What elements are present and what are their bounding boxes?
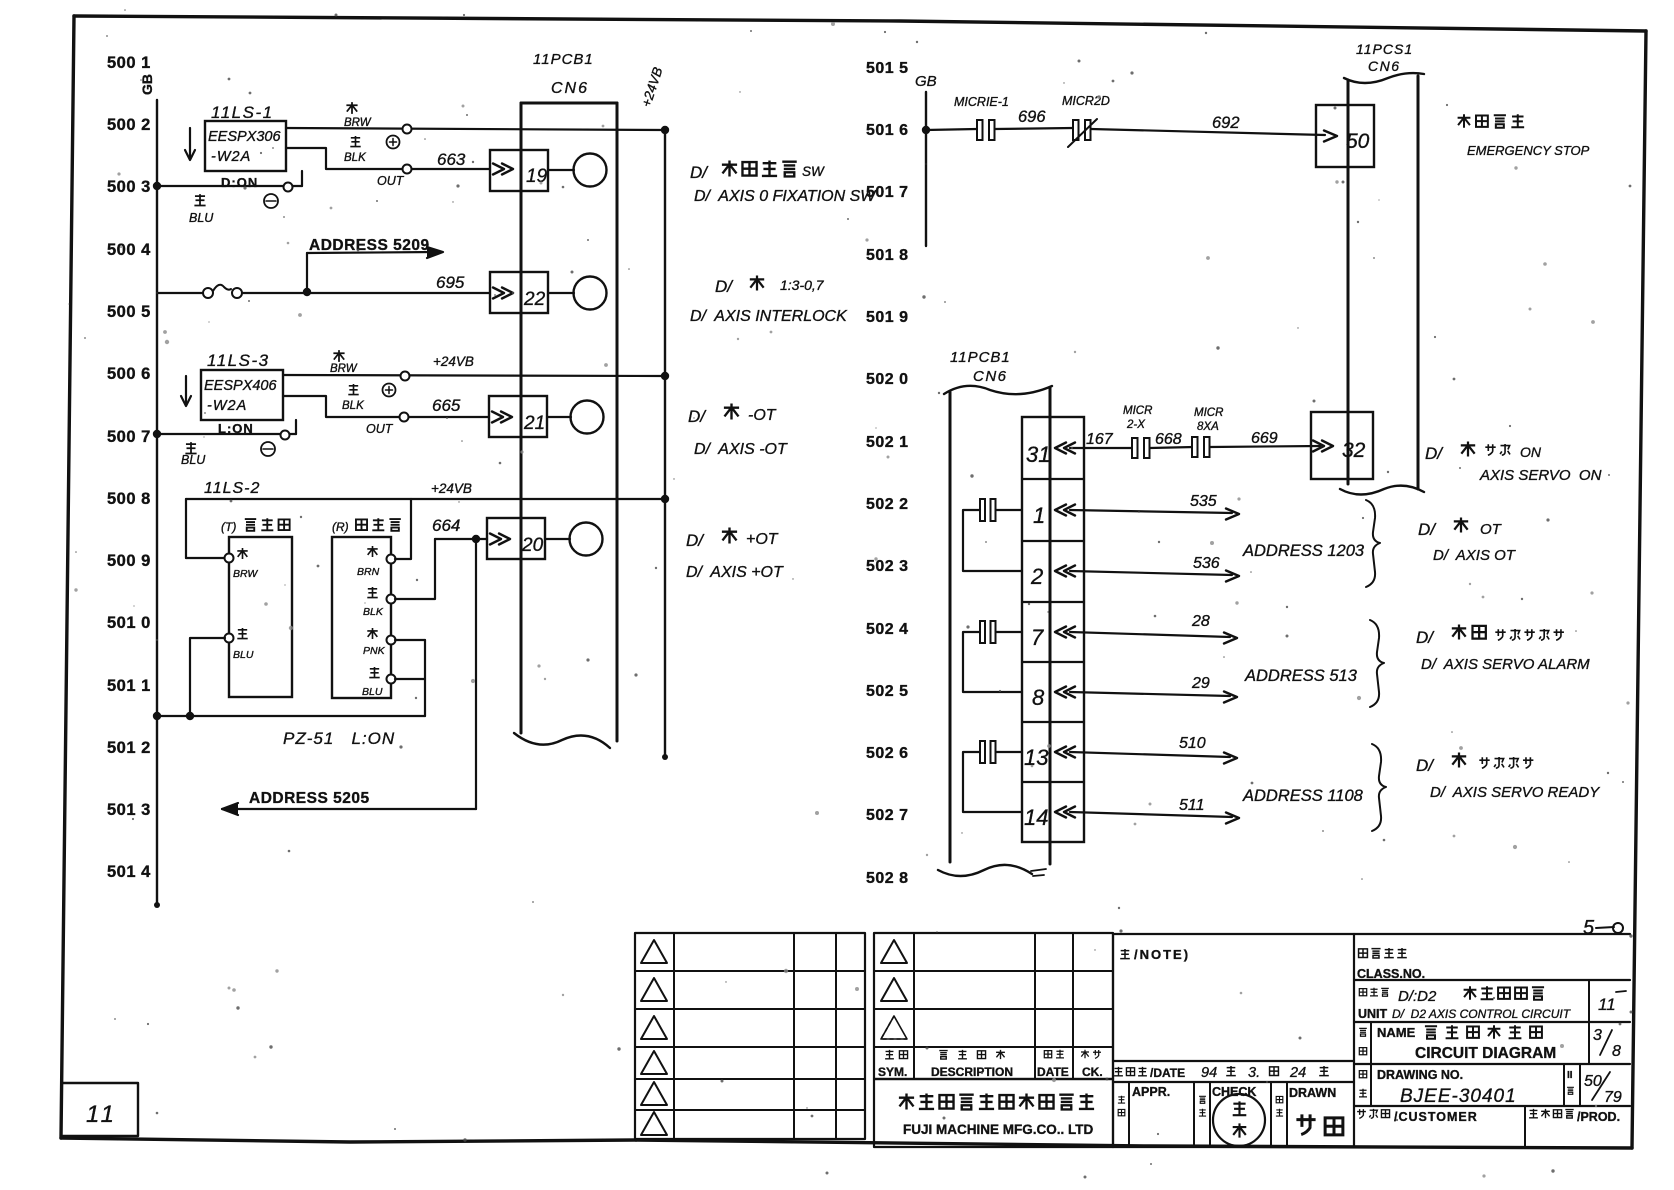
svg-text:D/: D/ (715, 277, 734, 296)
svg-text:BRW: BRW (330, 363, 358, 375)
title block revision table right (874, 933, 1113, 1079)
svg-text:510: 510 (1179, 735, 1206, 752)
svg-text:665: 665 (432, 396, 461, 415)
BLU colour label 11LS-3 (185, 442, 196, 453)
wire 696 (995, 128, 1073, 129)
BLU colour label 11LS-1 (194, 194, 205, 205)
svg-text:668: 668 (1155, 431, 1182, 448)
svg-text:BRN: BRN (357, 566, 380, 578)
svg-text:BRW: BRW (344, 117, 372, 129)
svg-text:502 5: 502 5 (866, 683, 909, 700)
svg-text:DATE: DATE (1037, 1065, 1069, 1079)
wire pin21 to lamp (547, 416, 571, 418)
capacitor link pins 1-2 (980, 499, 985, 521)
svg-text:MICR: MICR (1123, 405, 1152, 417)
svg-text:500 7: 500 7 (107, 428, 151, 446)
revision triangle (641, 1051, 667, 1074)
BRW colour label 11LS-3 (333, 350, 344, 362)
svg-text:MICR2D: MICR2D (1062, 94, 1110, 108)
drawn by Esaka (1296, 1114, 1315, 1134)
pin 14 arrow (1055, 807, 1066, 818)
border frame left edge (61, 16, 74, 1138)
check col label (1199, 1096, 1206, 1103)
svg-text:AXIS SERVO ON: AXIS SERVO ON (1479, 467, 1602, 484)
capacitor link pins 7-8 (980, 621, 985, 643)
svg-text:24: 24 (1289, 1065, 1306, 1081)
wire 510 (1070, 752, 1230, 757)
drawn col label (1276, 1096, 1283, 1102)
svg-text:31: 31 (1026, 442, 1050, 467)
svg-text:664: 664 (432, 516, 460, 535)
svg-text:14: 14 (1024, 805, 1048, 830)
transmitter terminal BRW (225, 554, 234, 563)
svg-text:94: 94 (1201, 1065, 1217, 1081)
pcb input box pin 22 (490, 272, 548, 313)
svg-text:2: 2 (1030, 564, 1043, 589)
svg-text:ADDRESS 5205: ADDRESS 5205 (249, 790, 370, 807)
connector middle torn bottom (938, 865, 1032, 876)
svg-text:11: 11 (86, 1101, 117, 1128)
wire 5005 from GB bus (157, 292, 203, 294)
wire 5003 blue lead from 11LS-1 (301, 171, 303, 186)
svg-text:SW: SW (802, 164, 825, 179)
pin 19 arrow (502, 164, 513, 175)
svg-text:511: 511 (1179, 797, 1205, 814)
svg-text:20: 20 (521, 535, 544, 556)
svg-text:D/: D/ (688, 407, 707, 426)
svg-text:8: 8 (1612, 1043, 1621, 1060)
11LS-1 actuator arrow (189, 128, 191, 158)
svg-text:BLU: BLU (362, 686, 383, 698)
wire BRN to +24VB rail (395, 499, 411, 559)
header CK cell (1081, 1050, 1089, 1058)
connector pin box 50 (1316, 105, 1374, 167)
wire transmitter BLU to 5012 (190, 638, 225, 716)
relay contact MICR 8XA (1192, 437, 1198, 457)
svg-text:11PCS1: 11PCS1 (1356, 41, 1413, 57)
svg-text:32: 32 (1342, 439, 1366, 462)
svg-text:/CUSTOMER: /CUSTOMER (1394, 1110, 1478, 1124)
limit switch 11LS-1 body (205, 121, 286, 171)
revision triangle (881, 1016, 907, 1039)
wire drop to transmitter (185, 499, 187, 558)
receiver terminal BLK (387, 595, 396, 604)
ADDRESS 5205 arrow (222, 808, 476, 810)
transmitter (T) body (229, 537, 292, 697)
wire PNK-BLU down to 5012 (424, 640, 426, 716)
limit switch 11LS-3 body (201, 370, 283, 420)
svg-text:EMERGENCY STOP: EMERGENCY STOP (1467, 143, 1590, 158)
title block bottom edge (636, 1140, 1632, 1148)
revision triangle (881, 940, 907, 963)
svg-text:ON: ON (1520, 444, 1542, 460)
plus terminal symbol 11LS-3 (383, 384, 396, 397)
svg-text:535: 535 (1190, 493, 1217, 510)
wire 5006 brown from 11LS-3 to +24VB bus (283, 375, 665, 376)
receiver terminal BLU (387, 675, 396, 684)
svg-text:501 0: 501 0 (107, 614, 151, 632)
svg-text:29: 29 (1191, 675, 1210, 692)
wire pin19 to lamp (548, 169, 574, 171)
company name japanese (899, 1094, 914, 1110)
brace alarm group (1370, 620, 1384, 707)
receiver (R) body (332, 537, 391, 698)
svg-text:D/:D2: D/:D2 (1398, 988, 1437, 1005)
junction GB/5016 (922, 126, 930, 134)
svg-text:501 9: 501 9 (866, 309, 909, 326)
relay contact MICR2D (NC) (1073, 120, 1079, 140)
pcb input box pin 21 (489, 396, 547, 437)
connector right torn bottom (1340, 486, 1424, 495)
wire 535 (1070, 510, 1232, 513)
11LS-3 actuator arrow (185, 376, 187, 404)
svg-text:DESCRIPTION: DESCRIPTION (931, 1065, 1013, 1079)
wire 536 (1070, 571, 1232, 575)
revision triangle (881, 978, 907, 1001)
unit label japanese (1359, 989, 1366, 996)
svg-text:D/ AXIS +OT: D/ AXIS +OT (686, 564, 784, 581)
svg-text:D/: D/ (1416, 756, 1435, 775)
svg-text:D/: D/ (1416, 628, 1435, 647)
svg-text:DRAWN: DRAWN (1289, 1086, 1336, 1100)
svg-text:OUT: OUT (377, 174, 405, 188)
pcb input box pin 19 (490, 150, 548, 191)
connector 11PCB1 CN6 left body (521, 102, 617, 105)
svg-text:501 2: 501 2 (107, 739, 151, 757)
svg-text:502 0: 502 0 (866, 371, 909, 388)
svg-text:BLU: BLU (233, 649, 254, 661)
approval col label (1118, 1096, 1125, 1103)
svg-text:1:3-0,7: 1:3-0,7 (780, 277, 825, 293)
svg-text:D/ AXIS SERVO ALARM: D/ AXIS SERVO ALARM (1421, 656, 1590, 673)
svg-text:500 5: 500 5 (107, 303, 151, 321)
svg-text:EESPX406: EESPX406 (204, 378, 277, 394)
svg-text:/NOTE): /NOTE) (1134, 947, 1190, 962)
svg-text:2-X: 2-X (1126, 419, 1146, 431)
svg-text:CK.: CK. (1082, 1065, 1103, 1079)
lamp indicator pin 22 (574, 277, 607, 310)
svg-text:D/: D/ (690, 163, 709, 182)
svg-text:CN6: CN6 (1368, 58, 1401, 74)
wire 669 to pin 32 (1210, 446, 1320, 447)
R-BRN colour label (367, 546, 377, 557)
terminal circle on 5007 wire (281, 431, 290, 440)
checker stamp Yamamoto (1213, 1094, 1265, 1146)
revision triangle (641, 978, 667, 1001)
relay contact MICR 2-X (1132, 438, 1138, 458)
revision triangle (641, 1082, 667, 1105)
connector 11PCB1 CN6 middle body (944, 386, 1052, 394)
connector pin box 32 (1311, 412, 1373, 479)
svg-text:11LS-2: 11LS-2 (204, 480, 260, 497)
relay contact MICRIE-1 (977, 120, 983, 140)
R-BLK colour label (367, 587, 377, 598)
name col label (1359, 1028, 1367, 1036)
BRW colour label (346, 102, 357, 114)
svg-text:500 1: 500 1 (107, 54, 151, 72)
pin 8 arrow (1055, 687, 1066, 698)
svg-text:663: 663 (437, 150, 466, 169)
svg-text:500 3: 500 3 (107, 178, 151, 196)
junction 5209/5005 (303, 288, 311, 296)
GB bus end dot (154, 902, 160, 908)
drawing col label (1359, 1071, 1366, 1078)
terminal circle on 5003 wire (284, 183, 293, 192)
pin 31 arrow (1055, 443, 1066, 454)
svg-text:501 7: 501 7 (866, 184, 909, 201)
ADDRESS 5209 arrow (307, 252, 436, 253)
wire 5007 blue lead from 11LS-3 (295, 420, 297, 434)
+24VB bus vertical wire (664, 130, 666, 757)
wire pin22 to lamp (548, 292, 574, 294)
pin 32 entry arrow (1322, 441, 1333, 452)
name value electric circuit diagram (japanese) (1425, 1026, 1437, 1038)
svg-text:SYM.: SYM. (878, 1065, 907, 1079)
wire 5008 +24VB to bus (186, 498, 665, 500)
junction +24VB/5002 (661, 126, 669, 134)
svg-text:EESPX306: EESPX306 (208, 129, 281, 145)
svg-text:13: 13 (1024, 745, 1049, 770)
wire pin20 to lamp (545, 538, 570, 540)
svg-text:500 2: 500 2 (107, 116, 151, 134)
svg-text:167: 167 (1086, 431, 1114, 448)
svg-text:BLK: BLK (344, 152, 367, 164)
junction +24VB/5006 (661, 372, 669, 380)
svg-text:-W2A: -W2A (211, 149, 251, 165)
svg-text:501 3: 501 3 (107, 801, 151, 819)
svg-text:502 4: 502 4 (866, 621, 909, 638)
name cell (1354, 1063, 1630, 1065)
svg-text:D/: D/ (1425, 444, 1444, 463)
svg-text:695: 695 (436, 273, 465, 292)
+24VB bus end dot (662, 754, 668, 760)
pin 1 arrow (1055, 505, 1066, 516)
prod label (1529, 1109, 1538, 1118)
wire 5012 from GB bus (157, 715, 425, 717)
svg-text:11LS-3: 11LS-3 (207, 351, 270, 370)
svg-text:OT: OT (1480, 521, 1503, 538)
svg-text:D/ AXIS INTERLOCK: D/ AXIS INTERLOCK (690, 308, 848, 325)
svg-text:+24VB: +24VB (433, 354, 474, 369)
svg-text:ADDRESS 1108: ADDRESS 1108 (1242, 787, 1364, 805)
svg-text:D/ D2 AXIS CONTROL CIRCUIT: D/ D2 AXIS CONTROL CIRCUIT (1392, 1007, 1572, 1021)
class cell (1354, 934, 1630, 1147)
svg-text:501 4: 501 4 (107, 863, 151, 881)
class label japanese (1359, 949, 1368, 958)
T-BLU colour label (237, 628, 247, 639)
svg-text:11PCB1: 11PCB1 (950, 349, 1011, 366)
svg-text:11LS-1: 11LS-1 (211, 103, 274, 122)
svg-text:BJEE-30401: BJEE-30401 (1400, 1086, 1517, 1107)
svg-text:669: 669 (1251, 430, 1278, 447)
lamp indicator pin 20 (570, 523, 603, 556)
sheet number box (63, 1083, 138, 1136)
minus terminal symbol 11LS-3 (261, 442, 275, 456)
svg-text:8XA: 8XA (1197, 421, 1219, 433)
wire 5002 brown BRW from 11LS-1 to +24VB bus (286, 128, 665, 130)
svg-text:-W2A: -W2A (207, 398, 247, 414)
header SYM cell (885, 1050, 894, 1059)
svg-text:21: 21 (523, 413, 545, 434)
pin 2 arrow (1055, 566, 1066, 577)
brace OT group (1366, 500, 1380, 587)
svg-text:501 8: 501 8 (866, 247, 909, 264)
svg-text:500 4: 500 4 (107, 241, 151, 259)
svg-text:CIRCUIT DIAGRAM: CIRCUIT DIAGRAM (1415, 1045, 1556, 1062)
approval row frame (1113, 1082, 1354, 1147)
svg-text:500 8: 500 8 (107, 490, 151, 508)
svg-text:BLK: BLK (363, 606, 384, 618)
BLK colour label (350, 136, 360, 147)
svg-text:PNK: PNK (363, 645, 386, 657)
svg-text:ADDRESS 513: ADDRESS 513 (1244, 667, 1358, 685)
svg-text:UNIT: UNIT (1358, 1007, 1388, 1021)
svg-text:5: 5 (1583, 917, 1595, 939)
pin terminal stack outline (1022, 417, 1084, 842)
svg-text:3.: 3. (1248, 1065, 1260, 1081)
pin 13 arrow (1055, 747, 1066, 758)
wire black BLK out of 11LS-1 (286, 148, 490, 169)
pcb input box pin 20 (487, 518, 545, 559)
drawing no cell (1354, 1105, 1630, 1107)
wire 664 to pin 20 (435, 538, 487, 540)
wire black BLK out of 11LS-3 (283, 396, 489, 417)
svg-text:502 8: 502 8 (866, 870, 909, 887)
wire BLU receiver (395, 678, 425, 680)
svg-text:502 7: 502 7 (866, 807, 909, 824)
svg-text:3: 3 (1593, 1027, 1602, 1044)
junction 664/address tap (472, 535, 480, 543)
pin 50 entry arrow (1324, 131, 1337, 142)
receiver terminal BRN (387, 555, 396, 564)
title block revision table left (635, 933, 865, 1139)
svg-text:APPR.: APPR. (1132, 1085, 1170, 1099)
revision triangle (641, 1112, 667, 1135)
svg-text:19: 19 (526, 166, 548, 187)
wire 167 (1070, 447, 1134, 449)
svg-text:MICRIE-1: MICRIE-1 (954, 95, 1009, 109)
svg-text:/DATE: /DATE (1150, 1066, 1185, 1080)
unit cell (1354, 1021, 1630, 1023)
wire PNK (395, 639, 425, 641)
svg-text:7: 7 (1031, 625, 1044, 650)
receiver terminal PNK (387, 636, 396, 645)
svg-text:/PROD.: /PROD. (1577, 1110, 1620, 1124)
terminal circle on BRW wire (403, 125, 412, 134)
svg-text:502 3: 502 3 (866, 558, 909, 575)
svg-text:D/ AXIS -OT: D/ AXIS -OT (694, 441, 788, 458)
svg-text:502 2: 502 2 (866, 496, 909, 513)
svg-text:11: 11 (1598, 995, 1616, 1014)
transmitter terminal BLU (225, 634, 234, 643)
svg-text:II: II (1567, 1070, 1573, 1081)
svg-text:PZ-51 L:ON: PZ-51 L:ON (283, 729, 395, 748)
BLK colour label 11LS-3 (348, 384, 358, 395)
terminal circle on BLK wire (403, 165, 412, 174)
svg-text:GB: GB (139, 74, 155, 95)
svg-text:501 6: 501 6 (866, 122, 909, 139)
switch contact on 5005 (203, 288, 213, 298)
svg-text:8: 8 (1032, 685, 1045, 710)
svg-text:11PCB1: 11PCB1 (533, 51, 594, 68)
svg-text:BLK: BLK (342, 400, 365, 412)
terminal circle on 665 wire (400, 413, 409, 422)
plus terminal symbol (387, 136, 400, 149)
svg-text:D/ AXIS 0 FIXATION SW: D/ AXIS 0 FIXATION SW (694, 188, 877, 205)
svg-text:-OT: -OT (748, 407, 777, 424)
svg-text:CN6: CN6 (551, 80, 589, 97)
svg-text:BLU: BLU (181, 453, 206, 467)
R-BLU colour label (369, 667, 379, 678)
lamp indicator pin 21 (571, 401, 604, 434)
connector 11PCS1 CN6 body (1344, 73, 1424, 83)
border frame top edge (74, 16, 1646, 31)
wire 511 (1070, 812, 1232, 817)
svg-text:FUJI MACHINE MFG.CO.. LTD: FUJI MACHINE MFG.CO.. LTD (903, 1122, 1093, 1137)
junction GB/5007 (153, 430, 161, 438)
wire 668 (1150, 447, 1194, 448)
pin 21 arrow (501, 412, 512, 423)
pin 7 arrow (1055, 627, 1066, 638)
svg-text:D/ AXIS SERVO READY: D/ AXIS SERVO READY (1430, 784, 1600, 801)
junction 5012/T-BLU (186, 712, 194, 720)
border frame right edge (1632, 31, 1646, 1148)
svg-text:D/: D/ (1418, 520, 1437, 539)
wire 695 to pin 22 (242, 292, 490, 294)
ADDRESS 5205 tap wire (475, 539, 477, 809)
svg-text:+OT: +OT (746, 531, 779, 548)
svg-text:BRW: BRW (233, 568, 258, 580)
svg-text:50: 50 (1346, 130, 1370, 153)
ADDRESS 5209 tap wire (306, 253, 308, 292)
capacitor link pins 13-14 (980, 741, 985, 763)
wire 5016 from GB bus (926, 129, 977, 130)
svg-text:MICR: MICR (1194, 407, 1223, 419)
lamp indicator pin 19 (574, 154, 607, 187)
svg-text:(R): (R) (332, 520, 349, 534)
pin 20 arrow (499, 534, 510, 545)
svg-text:D/: D/ (686, 531, 705, 550)
svg-text:CN6: CN6 (973, 368, 1008, 385)
customer cell (1524, 1106, 1526, 1147)
R-PNK colour label (367, 628, 377, 639)
svg-text:500 9: 500 9 (107, 552, 151, 570)
svg-text:GB: GB (915, 73, 937, 90)
svg-text:536: 536 (1193, 555, 1220, 572)
svg-text:696: 696 (1018, 108, 1046, 126)
header DATE cell (1044, 1051, 1051, 1058)
svg-text:ADDRESS 1203: ADDRESS 1203 (1242, 542, 1365, 560)
junction +24VB/5008 (661, 495, 669, 503)
svg-text:501 1: 501 1 (107, 677, 151, 695)
revision triangle (641, 940, 667, 963)
svg-text:28: 28 (1191, 613, 1210, 630)
svg-text:D/ AXIS OT: D/ AXIS OT (1433, 547, 1517, 564)
wire 29 (1070, 692, 1230, 696)
wire 692 to pin 50 (1091, 129, 1325, 135)
svg-text:NAME: NAME (1377, 1025, 1416, 1040)
svg-text:+24VB: +24VB (431, 481, 472, 496)
connector left torn edge (514, 733, 610, 748)
terminal circle on 5006 wire (401, 372, 410, 381)
GB bus vertical wire right (925, 92, 927, 246)
minus terminal symbol (264, 194, 278, 208)
svg-text:DRAWING NO.: DRAWING NO. (1377, 1068, 1463, 1082)
GB bus vertical wire (156, 100, 158, 905)
junction GB/5012 (153, 712, 161, 720)
svg-text:500 6: 500 6 (107, 365, 151, 383)
wire 28 (1070, 632, 1230, 637)
